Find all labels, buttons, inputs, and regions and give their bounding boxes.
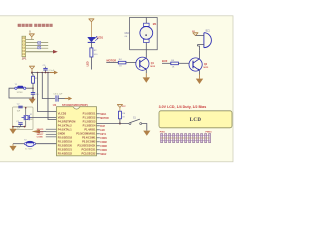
resistor R2 510 <box>90 48 98 57</box>
port VCC arrow <box>50 71 58 75</box>
ground (Q1 emitter) <box>143 73 150 83</box>
resistor R6 10K <box>119 111 126 119</box>
transistor Q2 <box>189 50 202 74</box>
power VCC (header) <box>29 34 35 40</box>
power VCC (LED) <box>89 19 95 38</box>
test point TP1 <box>38 42 41 45</box>
svg-text:PC2/SEG31: PC2/SEG31 <box>82 147 96 151</box>
motor M1 <box>140 18 153 50</box>
svg-text:P2.0/SEG18: P2.0/SEG18 <box>58 135 73 139</box>
ground (switch) <box>143 131 150 136</box>
node VCC rail <box>31 72 51 74</box>
wire rail drop 1 <box>37 72 57 112</box>
test point TP2 <box>38 46 41 49</box>
wire net stub 4 <box>37 137 57 139</box>
svg-text:P3.5/COM0/KB1: P3.5/COM0/KB1 <box>76 131 96 135</box>
wire pin5 with port arrow <box>26 50 58 54</box>
svg-text:VLCD3: VLCD3 <box>58 111 67 115</box>
wire rail drop 2 (to C6) <box>42 72 56 99</box>
svg-text:LED: LED <box>87 61 90 66</box>
ground (osc loop) <box>29 99 36 104</box>
wire motor loop <box>130 18 158 50</box>
crystal X1 <box>22 114 34 121</box>
capacitor C5 0.1uF <box>43 65 55 73</box>
label PIN1 <box>160 131 166 133</box>
wire base Q1 left <box>106 62 118 64</box>
label PIN16 <box>206 131 213 133</box>
wire switch to ground <box>142 124 147 131</box>
svg-text:MOTOR: MOTOR <box>100 118 109 120</box>
svg-text:SEG1: SEG1 <box>100 114 107 116</box>
capacitor C4 <box>31 88 40 98</box>
power VCC (key) <box>117 105 126 112</box>
svg-text:P4.1/XTAL2: P4.1/XTAL2 <box>58 123 72 127</box>
note: red CJK annotation "test interface, reserved test points" <box>18 24 55 34</box>
capacitor C2 7pF <box>17 104 23 113</box>
svg-text:PIN1: PIN1 <box>160 131 166 133</box>
buzzer BZ1 <box>195 33 211 51</box>
svg-text:P4.0/XTAL1: P4.0/XTAL1 <box>58 127 72 131</box>
net label MOTOR <box>107 59 117 63</box>
label Q2 9013 <box>203 64 209 69</box>
label JP1 <box>22 56 27 60</box>
svg-text:P3.2/SEG30CK: P3.2/SEG30CK <box>78 143 96 147</box>
svg-text:KEY1: KEY1 <box>100 134 107 136</box>
wire module vertical <box>25 107 27 127</box>
wire MCU to switch <box>97 123 130 125</box>
wire R6 to key node <box>119 119 121 125</box>
svg-text:LED1: LED1 <box>97 36 104 39</box>
net label BUZ <box>162 59 168 63</box>
svg-text:M1: M1 <box>153 23 157 26</box>
connector JP1 <box>22 36 26 56</box>
svg-text:P1.4/KB1: P1.4/KB1 <box>84 127 96 131</box>
label M1 <box>153 23 157 26</box>
transistor Q1 <box>136 50 149 74</box>
svg-text:P4.2/RST/PGM: P4.2/RST/PGM <box>58 119 76 123</box>
crystal Y1 <box>14 84 33 94</box>
label U1 STC89C52 <box>53 103 88 107</box>
resistor R4 1K <box>118 59 126 67</box>
svg-text:P3.4/COM1: P3.4/COM1 <box>82 135 96 139</box>
svg-text:P1.2/SEG3: P1.2/SEG3 <box>83 119 96 123</box>
value MG90 <box>125 33 131 38</box>
svg-text:C6 0.1uF: C6 0.1uF <box>53 93 63 95</box>
svg-text:PIN16: PIN16 <box>206 131 213 133</box>
svg-text:P3.3/COM2: P3.3/COM2 <box>82 139 96 143</box>
power VCC (buzzer) <box>192 31 198 36</box>
wire net stub 1 <box>37 129 57 131</box>
wire pin4 <box>26 47 49 49</box>
svg-text:0.1uF: 0.1uF <box>49 70 55 72</box>
schematic sheet <box>0 16 233 162</box>
wire pin1 <box>26 39 34 41</box>
switch S1 <box>129 117 142 124</box>
resistor R1 <box>32 76 39 83</box>
svg-text:MOTOR: MOTOR <box>107 59 117 63</box>
wire pin3 <box>26 44 49 46</box>
wire pin2 <box>26 42 49 44</box>
ground (Q2 emitter) <box>196 75 203 85</box>
wire R5 to Q2 <box>178 62 189 64</box>
svg-text:COM3: COM3 <box>100 146 107 148</box>
svg-text:3.0V LCD, 1/4 Duty, 1/2 Bias: 3.0V LCD, 1/4 Duty, 1/2 Bias <box>159 105 207 109</box>
resistor R5 1K <box>171 60 179 68</box>
svg-text:P2.2/SEG20: P2.2/SEG20 <box>58 143 73 147</box>
wire net stub 3 <box>37 134 57 136</box>
svg-text:BUZ: BUZ <box>100 126 105 128</box>
svg-text:P2.1/SEG19: P2.1/SEG19 <box>58 139 73 143</box>
module outline <box>13 107 34 130</box>
svg-text:COM1: COM1 <box>100 138 107 140</box>
svg-text:BUZ: BUZ <box>162 59 168 63</box>
port arrow (XTAL net, pointing left) <box>32 130 46 134</box>
svg-text:BZ1: BZ1 <box>206 30 211 32</box>
ground (Y2) <box>9 144 16 151</box>
wire LED to R <box>90 42 92 48</box>
wire Y2 to MCU <box>35 143 56 145</box>
svg-text:VCC: VCC <box>122 106 127 108</box>
svg-text:9013: 9013 <box>203 67 209 69</box>
svg-text:32.768K: 32.768K <box>25 149 33 151</box>
IC U1 box <box>57 107 97 156</box>
wire R2 down / net label LED <box>87 57 92 70</box>
wire X1 to MCU <box>31 117 57 119</box>
svg-text:PC1/SEG32: PC1/SEG32 <box>82 151 96 155</box>
svg-text:9013: 9013 <box>150 66 156 68</box>
wire Y1 feedback loop <box>9 88 34 99</box>
ground (module) <box>9 127 16 134</box>
LCD pin header comb <box>160 134 210 143</box>
wire base Q2 left <box>162 62 171 64</box>
label LCD <box>190 118 202 123</box>
svg-text:COM4: COM4 <box>100 149 107 152</box>
svg-text:VDD5: VDD5 <box>58 115 65 119</box>
wire rail drop 3 <box>47 72 56 120</box>
svg-text:U1: U1 <box>53 103 57 107</box>
label LED1 <box>97 36 104 39</box>
svg-text:LCD: LCD <box>190 118 202 123</box>
note: LCD spec text <box>159 105 207 109</box>
svg-text:P1.1/SEG2: P1.1/SEG2 <box>83 115 96 119</box>
label Q1 9013 <box>150 63 156 68</box>
svg-text:COM0: COM0 <box>37 137 44 139</box>
svg-text:COM2: COM2 <box>100 142 107 144</box>
wire net stub 2 <box>37 132 57 134</box>
svg-text:LED: LED <box>100 130 105 132</box>
svg-text:32768: 32768 <box>17 92 24 94</box>
power VCC (osc) <box>29 66 35 72</box>
IC pin names <box>58 111 96 155</box>
wire R1 to crystal node <box>32 83 34 89</box>
wire gnd to Y2 <box>13 143 25 145</box>
svg-text:STC89C52RC(PDIP): STC89C52RC(PDIP) <box>62 103 88 107</box>
svg-text:JP1: JP1 <box>22 56 27 60</box>
crystal Y2 <box>24 139 36 150</box>
port arrow (C6 net) <box>65 97 72 101</box>
wire R4 to Q1 <box>126 62 136 64</box>
LED LED1 <box>88 36 99 42</box>
wire module bottom rail <box>12 124 25 127</box>
wire VCC to R1 <box>32 73 33 77</box>
svg-text:MG9: MG9 <box>125 33 131 35</box>
svg-text:SEG2: SEG2 <box>100 154 107 156</box>
LCD module box <box>159 111 232 128</box>
wires MCU right pin stubs + net labels <box>97 114 110 156</box>
svg-text:4M: 4M <box>30 119 33 121</box>
capacitor C3 7pF <box>16 121 23 130</box>
capacitor C6 0.1uF <box>53 93 66 101</box>
svg-text:P2.3/SEG21: P2.3/SEG21 <box>58 147 73 151</box>
label BZ1 <box>206 30 211 32</box>
svg-text:P1.0/SEG1: P1.0/SEG1 <box>83 111 96 115</box>
svg-text:P2.4/SEG22: P2.4/SEG22 <box>58 151 73 155</box>
svg-text:P1.3/SEG4: P1.3/SEG4 <box>83 123 96 127</box>
svg-text:GND8: GND8 <box>58 131 66 135</box>
